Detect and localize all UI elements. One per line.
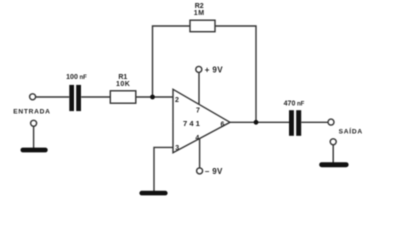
ground (pin 3) — [139, 191, 167, 196]
svg-text:470 nF: 470 nF — [284, 100, 305, 107]
resistor R1 — [110, 91, 136, 103]
terminal SAIDA — [328, 119, 334, 125]
wire input: capacitor to R1 — [81, 96, 110, 98]
svg-text:R1: R1 — [118, 74, 127, 81]
terminal SAIDA ground jack — [330, 139, 336, 145]
wire SAIDA ground jack to ground — [332, 145, 334, 164]
svg-text:4: 4 — [195, 135, 199, 142]
terminal +9V — [196, 66, 202, 72]
node junction input — [150, 95, 155, 100]
node junction output — [254, 120, 259, 125]
wire input: ENTRADA terminal to capacitor — [36, 96, 70, 98]
wire output: op-amp pin 6 to capacitor — [230, 121, 289, 123]
wire ENTRADA ground jack to ground — [33, 126, 35, 148]
terminal -9V — [197, 168, 203, 174]
wire feedback top from left riser to R2 — [153, 26, 191, 97]
capacitor C2 470nF plates — [289, 110, 294, 136]
svg-text:+ 9V: + 9V — [205, 65, 223, 74]
capacitor C1 100nF plates — [69, 85, 74, 111]
wire pin 4 to -9V terminal — [199, 139, 201, 168]
svg-text:100 nF: 100 nF — [66, 74, 87, 81]
wire input: R1 to op-amp pin 2 — [136, 96, 173, 98]
svg-text:2: 2 — [175, 97, 179, 104]
svg-text:6: 6 — [221, 121, 225, 128]
svg-text:1M: 1M — [194, 10, 205, 17]
terminal ENTRADA ground jack — [31, 120, 37, 126]
svg-text:SAÍDA: SAÍDA — [339, 127, 363, 136]
terminal ENTRADA — [30, 94, 36, 100]
svg-text:3: 3 — [175, 145, 179, 152]
svg-text:– 9V: – 9V — [205, 167, 223, 176]
wire pin 7 to +9V terminal — [198, 72, 200, 104]
svg-text:ENTRADA: ENTRADA — [13, 108, 51, 115]
wire feedback top from R2 to right riser, down to output — [215, 26, 256, 122]
wire output: capacitor to SAIDA terminal — [301, 121, 328, 123]
wire pin 3 to ground — [154, 147, 173, 191]
svg-text:7: 7 — [196, 108, 200, 115]
resistor R2 — [190, 20, 215, 32]
svg-text:10K: 10K — [116, 81, 130, 88]
op-amp U1 741 triangle — [173, 89, 230, 152]
ground (ENTRADA) — [21, 148, 48, 153]
svg-text:741: 741 — [183, 119, 202, 128]
ground (SAIDA) — [319, 162, 348, 167]
